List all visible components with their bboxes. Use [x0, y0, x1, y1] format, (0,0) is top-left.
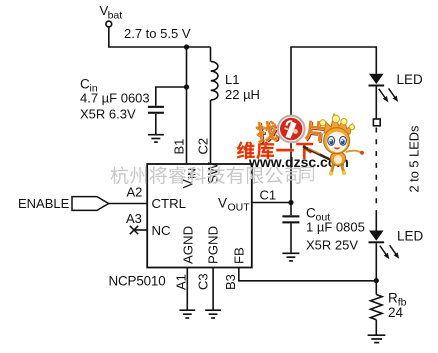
- svg-text:PGND: PGND: [206, 226, 221, 264]
- LED D1: [369, 74, 385, 119]
- ENABLE input flag: [18, 196, 109, 211]
- svg-text:B3: B3: [223, 274, 238, 290]
- svg-text:2.7 to 5.5 V: 2.7 to 5.5 V: [124, 26, 191, 41]
- svg-text:V: V: [218, 196, 227, 211]
- watermark mascot: [303, 114, 364, 176]
- label L1 value: [225, 72, 260, 102]
- label Cout value: [306, 206, 365, 253]
- junction node at VIN rail: [184, 44, 189, 49]
- ground (Cin): [148, 135, 164, 142]
- wire top rail to L1: [210, 47, 212, 62]
- wire to Cin: [156, 87, 187, 106]
- LED D1 emission arrows: [379, 88, 398, 102]
- pin ball A1: [174, 274, 189, 290]
- capacitor Cin: [148, 106, 164, 134]
- pin VIN: [180, 168, 199, 189]
- terminal Vbat: [100, 3, 123, 27]
- wire dashed LED string: [375, 128, 377, 212]
- watermark 找 character: [255, 119, 281, 144]
- node square (string tap): [373, 119, 380, 126]
- ground (AGND): [179, 310, 195, 318]
- wire VOUT to output node: [252, 202, 291, 204]
- pin AGND: [181, 226, 196, 264]
- svg-text:FB: FB: [232, 247, 247, 264]
- svg-text:C2: C2: [196, 138, 211, 155]
- wire B1/VIN vertical: [186, 47, 188, 164]
- svg-text:NC: NC: [152, 223, 172, 238]
- wire output up and over to LED string: [291, 47, 376, 203]
- svg-text:A3: A3: [126, 211, 142, 226]
- junction node VOUT: [288, 200, 293, 205]
- svg-text:C3: C3: [196, 273, 211, 290]
- svg-text:X5R 25V: X5R 25V: [306, 238, 358, 253]
- svg-text:ENABLE: ENABLE: [18, 196, 70, 211]
- svg-text:OUT: OUT: [228, 202, 251, 214]
- wire L1 to SW pin: [210, 100, 212, 164]
- label 2 to 5 LEDs: [406, 126, 421, 193]
- svg-text:CTRL: CTRL: [152, 196, 186, 211]
- ground (PGND): [205, 310, 221, 318]
- inductor L1: [211, 62, 218, 100]
- watermark 维库一下 (red): [237, 141, 313, 159]
- svg-text:22 µH: 22 µH: [225, 87, 260, 102]
- svg-text:A2: A2: [127, 185, 143, 200]
- op-amp U1 NCP5010 body: [147, 164, 252, 268]
- watermark badge circle: [278, 116, 305, 143]
- svg-text:A1: A1: [174, 274, 189, 290]
- junction node Cin tap: [184, 84, 189, 89]
- pin ball B3: [223, 274, 238, 290]
- capacitor Cout: [282, 203, 299, 253]
- pin FB: [232, 247, 247, 264]
- resistor Rfb: [375, 281, 377, 295]
- svg-text:2 to 5 LEDs: 2 to 5 LEDs: [406, 126, 421, 193]
- svg-text:24: 24: [388, 305, 404, 320]
- svg-text:L1: L1: [225, 72, 239, 87]
- junction node FB: [374, 278, 379, 283]
- ground (Cout): [282, 253, 299, 261]
- pin VOUT: [218, 196, 250, 214]
- svg-text:C: C: [306, 206, 316, 221]
- pin SW: [206, 162, 221, 184]
- no-connect X on NC stub: [130, 226, 147, 234]
- svg-text:C1: C1: [260, 188, 277, 203]
- wire PGND to ground: [212, 268, 214, 310]
- svg-text:4.7 µF 0603: 4.7 µF 0603: [80, 91, 150, 106]
- svg-text:LED: LED: [397, 72, 424, 87]
- svg-text:AGND: AGND: [181, 226, 196, 264]
- svg-text:R: R: [388, 291, 398, 306]
- pin ball C2: [196, 138, 211, 155]
- watermark company name (gray): [111, 166, 301, 184]
- svg-text:LED: LED: [397, 229, 424, 244]
- svg-text:NCP5010: NCP5010: [109, 274, 166, 289]
- label Cin value: [80, 77, 150, 122]
- pin PGND: [206, 226, 221, 264]
- svg-text:1 µF 0805: 1 µF 0805: [306, 220, 365, 235]
- watermark sketch box: [300, 167, 314, 181]
- wire Vbat to rail: [109, 27, 211, 47]
- pin ball C3: [196, 273, 211, 290]
- LED D2 emission arrows: [380, 245, 399, 259]
- svg-text:B1: B1: [172, 139, 187, 155]
- svg-text:C: C: [80, 77, 90, 92]
- wire ENABLE to CTRL: [109, 203, 148, 205]
- label Rfb value: [388, 291, 407, 321]
- wire FB from IC: [239, 268, 376, 281]
- watermark 片 character: [304, 120, 326, 144]
- ground (Rfb): [368, 335, 386, 342]
- wire AGND to ground: [186, 268, 188, 310]
- pin ball B1: [172, 139, 187, 155]
- LED D2: [369, 231, 385, 281]
- svg-text:bat: bat: [108, 9, 123, 21]
- svg-text:X5R 6.3V: X5R 6.3V: [80, 107, 136, 122]
